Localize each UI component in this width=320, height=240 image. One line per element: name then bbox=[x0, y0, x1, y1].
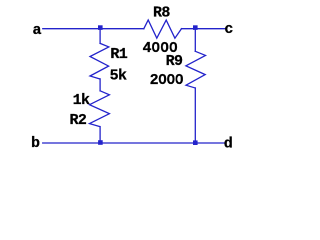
svg-text:c: c bbox=[224, 21, 233, 38]
svg-text:5k: 5k bbox=[110, 68, 127, 85]
svg-text:d: d bbox=[224, 135, 232, 152]
svg-text:R9: R9 bbox=[166, 53, 183, 70]
svg-text:1k: 1k bbox=[73, 92, 90, 109]
svg-text:b: b bbox=[31, 135, 40, 152]
svg-text:R2: R2 bbox=[70, 112, 87, 129]
svg-text:a: a bbox=[33, 22, 42, 39]
svg-text:R1: R1 bbox=[110, 46, 127, 63]
svg-text:R8: R8 bbox=[153, 4, 170, 21]
